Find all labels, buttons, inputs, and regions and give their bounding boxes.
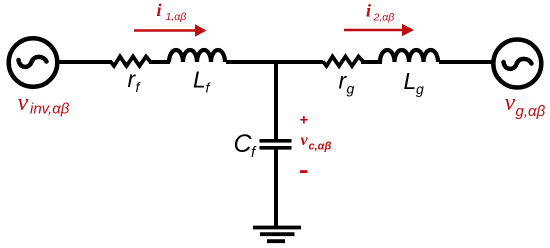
- svg-text:v: v: [18, 90, 29, 116]
- ac source V_inv sine tilde: [19, 57, 47, 67]
- svg-text:i: i: [366, 1, 371, 21]
- current arrow i2 head: [402, 24, 414, 36]
- ac source V_g circle: [493, 40, 541, 88]
- ac source V_g sine tilde: [504, 59, 532, 69]
- wire r_f to L_f: [149, 60, 170, 64]
- svg-text:g: g: [347, 81, 355, 97]
- wire node to capacitor: [274, 60, 278, 140]
- current arrow i1 line: [134, 29, 196, 32]
- current arrow i2 line: [344, 29, 403, 32]
- svg-text:L: L: [193, 67, 206, 93]
- svg-text:2,αβ: 2,αβ: [373, 12, 395, 24]
- ground bar 1: [253, 226, 301, 230]
- capacitor C_f bottom plate: [260, 146, 292, 150]
- svg-text:g: g: [416, 81, 424, 97]
- wire left source to r_f: [56, 60, 112, 64]
- wire L_g to right source: [439, 60, 494, 64]
- svg-text:i: i: [157, 0, 162, 20]
- inductor L_g: [380, 50, 438, 62]
- svg-text:+: +: [300, 112, 309, 129]
- ground bar 2: [260, 232, 295, 236]
- inductor L_f: [169, 50, 225, 62]
- svg-text:C: C: [234, 130, 253, 158]
- capacitor C_f top plate: [260, 139, 292, 143]
- resistor r_g: [323, 57, 364, 67]
- current arrow i1 head: [195, 24, 207, 36]
- svg-text:g,αβ: g,αβ: [516, 103, 546, 120]
- wire r_g to L_g: [361, 60, 382, 64]
- wire L_f to r_g through node: [226, 60, 323, 64]
- ac source V_inv circle: [9, 38, 58, 87]
- svg-text:c,αβ: c,αβ: [309, 141, 332, 153]
- svg-text:inv,αβ: inv,αβ: [30, 101, 70, 118]
- resistor r_f: [111, 57, 152, 67]
- ground bar 3: [267, 239, 285, 243]
- svg-text:v: v: [301, 132, 309, 149]
- wire capacitor to ground: [274, 149, 278, 227]
- capacitor minus sign: [300, 170, 308, 173]
- svg-text:L: L: [404, 68, 417, 94]
- svg-text:v: v: [505, 90, 516, 116]
- svg-text:1,αβ: 1,αβ: [166, 11, 187, 23]
